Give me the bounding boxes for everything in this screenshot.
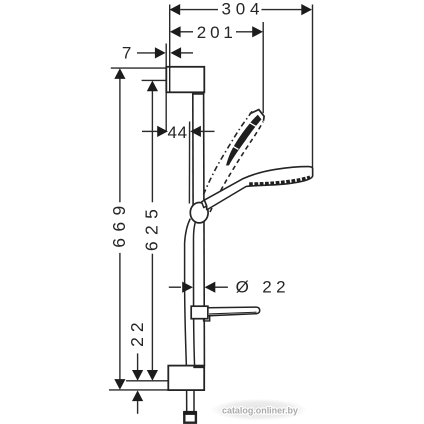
dimension 22 (vertical, bottom) xyxy=(137,353,139,370)
soap dish tray xyxy=(208,307,260,316)
dashed hand shower: left outline xyxy=(204,111,253,195)
dashed hand shower: spray face crescent xyxy=(226,115,262,166)
crescent notch 1 xyxy=(232,146,239,150)
dimension 201 xyxy=(180,31,252,33)
dashed hand shower: right outline xyxy=(210,122,263,213)
svg-text:625: 625 xyxy=(142,209,162,251)
extension line bracket bottom (669/22 ref) xyxy=(109,389,168,391)
crescent notch 2 xyxy=(249,123,256,127)
svg-text:44: 44 xyxy=(168,123,188,142)
slider knob xyxy=(190,203,208,223)
dashed hand shower: head cap xyxy=(250,110,265,121)
svg-text:304: 304 xyxy=(222,0,260,19)
svg-text:7: 7 xyxy=(122,44,131,63)
hose right edge xyxy=(193,222,195,366)
hose left edge xyxy=(185,219,191,367)
top bracket rail boss step xyxy=(193,93,204,95)
top wall bracket xyxy=(166,67,204,93)
soap dish tray inner edge xyxy=(209,312,257,314)
hose (white tube in front of rail) xyxy=(185,219,196,367)
bottom wall bracket xyxy=(168,366,204,391)
soap dish step xyxy=(204,316,210,321)
slider holder tab xyxy=(202,200,207,208)
dimension 304 xyxy=(180,9,302,11)
rail left edge xyxy=(192,92,195,366)
hand shower nozzle row xyxy=(249,177,310,184)
dimension 44 xyxy=(142,130,158,132)
hose connector top band xyxy=(183,411,197,415)
extension line for 44 (hand shower axis) xyxy=(188,122,190,204)
soap dish clamp xyxy=(191,306,208,319)
bottom bracket rail boss step xyxy=(193,366,204,368)
extension line rail bottom end (625/22 ref) xyxy=(126,380,169,382)
hose below bottom bracket xyxy=(187,390,194,412)
dimension 625 (vertical) xyxy=(151,91,153,371)
hose connector nut xyxy=(184,413,196,423)
extension line A (wall plate left edge, ref for 7 and 44) xyxy=(165,44,167,132)
svg-text:Ø 22: Ø 22 xyxy=(236,278,286,297)
svg-text:catalog.onliner.by: catalog.onliner.by xyxy=(222,405,299,416)
svg-text:201: 201 xyxy=(197,23,233,42)
extension line for 304 (solid head right edge) xyxy=(312,5,314,177)
extension line top of bracket (669 ref) xyxy=(111,67,167,69)
dimension 7 xyxy=(137,52,155,54)
dimension 669 (vertical) xyxy=(119,79,121,380)
rail right edge xyxy=(203,92,206,366)
extension line B (wall plate right edge, ref for 304/201/7) xyxy=(169,5,171,93)
dimension diameter 22 xyxy=(169,286,181,288)
extension line rail top (625 ref) xyxy=(142,79,167,81)
svg-text:669: 669 xyxy=(109,206,129,248)
extension line for 201 (dashed head reference) xyxy=(262,22,264,113)
wall plate edge inside top bracket xyxy=(169,67,171,93)
hand shower (solid) body xyxy=(204,167,312,210)
svg-text:22: 22 xyxy=(127,322,147,347)
